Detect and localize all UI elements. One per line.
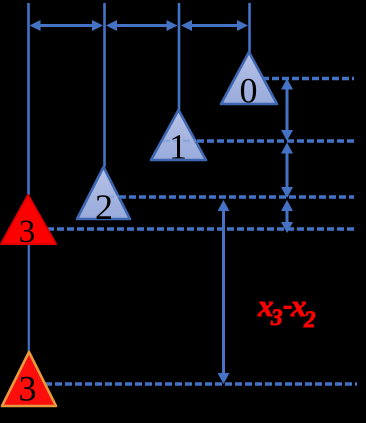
tick line t2 (x=104.5) (103, 3, 106, 167)
svg-text:3: 3 (19, 214, 36, 250)
tick line t4 (x=249.5) (248, 3, 251, 52)
tick line t1 (x=28.5 top) (27, 3, 30, 195)
dimension arrow seg2 (x=104..179, y=25.5) (106, 20, 178, 31)
long dimension arrow x2..bottom (x=223.5) (218, 200, 230, 384)
dashed line L3 (y=229) (47, 227, 356, 231)
triangle 1 (151, 110, 206, 167)
svg-text:3: 3 (19, 369, 37, 409)
triangle 0 (221, 52, 277, 111)
svg-text:3: 3 (270, 305, 283, 330)
dimension chain seg x1-x2 (x=287, y=142..197) (281, 143, 293, 199)
tick line t3 (x=179) (178, 3, 181, 110)
wire: vertical line between red triangles (28, 244, 30, 352)
dimension chain seg x0-x1 (x=287, y=79..141) (281, 79, 293, 142)
dashed line L0 (y=78.5) (262, 77, 354, 81)
dimension arrow seg3 (x=179..249, y=25.5) (181, 20, 248, 31)
triangle 3 upper (red) (1, 195, 56, 250)
dimension arrow seg1 (x=28..104, y=25.5) (30, 20, 104, 31)
triangle 3 lower (red, orange border) (2, 352, 56, 409)
dashed line L1 (y=141) (197, 139, 356, 143)
svg-text:0: 0 (240, 71, 258, 111)
svg-text:2: 2 (303, 307, 316, 332)
dashed line L2 (y=197) (119, 195, 354, 199)
svg-text:1: 1 (169, 127, 187, 167)
svg-text:2: 2 (95, 187, 113, 227)
dashed line L4 (y=384) (45, 382, 357, 386)
triangle 2 (77, 167, 130, 227)
label x3-x2 (red) (257, 288, 316, 332)
dimension chain seg x2-x3 (x=287, y=199..231) (281, 200, 293, 233)
